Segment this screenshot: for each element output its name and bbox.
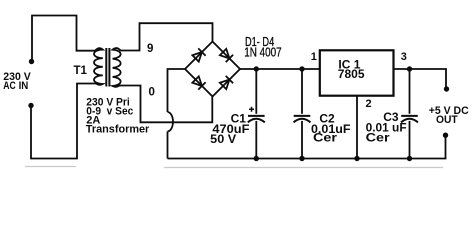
svg-text:OUT: OUT [436,114,458,126]
node C1 top junction [254,66,259,71]
capacitor C1 bottom lead [255,121,257,159]
wire IC1 pin3 rail to output [394,69,447,87]
node C2 top junction [299,66,304,71]
diode D2 upper-right [219,48,233,62]
svg-text:50 V: 50 V [210,132,236,146]
wire DC+ rail bridge to IC1 [240,68,320,70]
wire IC1 pin2 to ground [356,96,358,159]
svg-text:Cer: Cer [366,130,390,144]
wire AC bottom loop [31,84,95,159]
svg-text:1: 1 [311,51,317,63]
transformer T1 primary winding [94,48,103,85]
bridge diamond edges [185,42,240,97]
label C1 values [210,111,249,146]
wire bridge left vertex to ground with hop [168,69,186,112]
label D1-D4 [244,35,282,60]
svg-text:9: 9 [147,43,153,55]
diode D4 lower-right [219,76,233,90]
svg-text:1N 4007: 1N 4007 [244,46,282,60]
svg-text:7805: 7805 [338,67,365,81]
diode D1 upper-left [192,48,206,62]
capacitor C1 plus sign [249,107,254,112]
svg-text:0: 0 [149,87,155,99]
label transformer spec [86,97,150,136]
node +5V output terminal [444,86,449,91]
label C3 values [366,110,407,144]
ghost scan line right [164,167,443,169]
node AC bottom terminal [28,103,33,108]
svg-text:2: 2 [366,98,372,110]
label +5 V DC OUT [429,105,469,126]
svg-text:AC: AC [3,80,16,92]
wire secondary 9 tap to bridge top [120,23,213,50]
node C1 ground junction [254,156,259,161]
capacitor C2 bottom lead [301,121,303,159]
capacitor C1 top lead [255,69,257,114]
capacitor C3 plates [401,115,418,117]
node C2 ground junction [299,156,304,161]
label IC1 7805 [338,58,365,82]
node IC1 pin2 ground junction [354,156,359,161]
wire AC top loop [32,16,95,62]
svg-text:Transformer: Transformer [86,124,150,136]
svg-text:3: 3 [401,51,407,63]
capacitor C3 bottom lead [409,121,411,159]
capacitor C2 top lead [301,69,303,114]
wire secondary 0 tap to bridge bottom [120,86,212,123]
label C2 values [311,111,351,144]
capacitor C3 top lead [409,69,411,114]
IC1 box [320,50,394,95]
capacitor C2 plates [294,115,311,117]
svg-text:T1: T1 [74,65,88,77]
label 230 V AC IN [3,71,31,92]
node C3 ground junction [407,156,412,161]
transformer T1 secondary winding [113,48,121,87]
node AC top terminal [29,59,34,64]
ghost scan line left [25,166,76,168]
wire hop continues to ground rail [167,131,169,158]
node C3 top junction [407,66,412,71]
node output minus terminal [443,133,448,138]
svg-text:IN: IN [19,80,29,92]
diode D3 lower-left [192,76,206,90]
capacitor C1 plates [248,115,265,117]
transformer T1 core [106,48,109,87]
wire hop over 0-wire [168,112,173,131]
wire ground rail [168,137,446,159]
svg-text:Cer: Cer [313,130,337,144]
